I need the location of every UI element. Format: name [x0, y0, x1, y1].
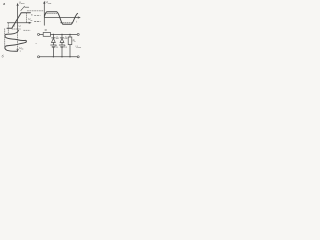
- wire arrowhead of vin axis: [29, 22, 31, 23]
- wire dashed lower level line: [12, 28, 21, 30]
- wire dashed projection of negative peak: [4, 29, 6, 48]
- wire dashed projection above flat bottom: [7, 23, 9, 33]
- wire arrowhead of v axis: [17, 4, 18, 6]
- wire tick left of output axis upper: [34, 15, 40, 17]
- wire bottom rail: [40, 56, 78, 58]
- wire dashed time axis of input wave: [17, 30, 19, 50]
- wire RL top stub: [69, 34, 71, 37]
- wire top rail: [51, 33, 78, 35]
- wire dashed clip level to output plot: [27, 10, 44, 12]
- wire D1 to battery E1: [52, 43, 54, 46]
- node junction dot D1: [53, 34, 54, 35]
- wire dashed projection of positive peak: [25, 13, 27, 22]
- node junction dot bottom RL: [69, 56, 70, 57]
- svg-text:U: U: [19, 24, 21, 28]
- transfer characteristic curve (limiter): [7, 13, 30, 28]
- wire dashed clip level above flat bottom: [60, 22, 72, 24]
- svg-text:~: ~: [35, 42, 37, 46]
- battery E2: [59, 44, 65, 46]
- wire E2 to bottom rail: [61, 47, 63, 57]
- node junction dot bottom D1: [53, 56, 54, 57]
- input terminal bottom circle: [38, 56, 40, 58]
- svg-text:-U: -U: [12, 24, 15, 28]
- wire dashed clip level under flat top: [45, 12, 57, 14]
- wire vertical axis v_out of transfer plot: [17, 4, 19, 29]
- output clipped waveform: [44, 12, 77, 24]
- input terminal top circle: [38, 33, 40, 35]
- wire horizontal axis v_in of transfer plot: [7, 22, 30, 24]
- input sine wave rotated, time downward: [5, 30, 27, 51]
- output terminal top circle: [77, 33, 79, 35]
- node junction dot bottom D2: [61, 56, 62, 57]
- diode D1 (vertical, cathode bar top): [52, 34, 54, 38]
- wire arrowhead time axis down: [17, 49, 18, 51]
- wire vertical axis of output plot: [43, 2, 45, 25]
- resistor RL (load, box style vertical): [68, 37, 72, 45]
- node label annotation near leader: [25, 6, 29, 8]
- wire input to resistor: [40, 33, 44, 35]
- wire arrowhead output v axis: [44, 2, 45, 4]
- wire time axis of output plot: [44, 17, 79, 19]
- wire D2 to battery E2: [61, 43, 63, 46]
- node junction dot RL: [69, 34, 70, 35]
- wire dashed segment right of lower level: [24, 29, 30, 31]
- diode D2 (vertical, cathode bar top): [61, 34, 63, 38]
- resistor R (series, box style): [43, 33, 50, 37]
- wire RL to bottom rail: [69, 45, 71, 57]
- battery E1: [51, 44, 57, 46]
- wire arrowhead output t axis: [78, 17, 80, 18]
- wire tick left of output axis lower: [34, 21, 40, 23]
- wire leader line to flat top: [21, 6, 25, 10]
- svg-text:б: б: [2, 55, 4, 59]
- wire E1 to bottom rail: [52, 47, 54, 57]
- node junction dot D2: [61, 34, 62, 35]
- output terminal bottom circle: [77, 56, 79, 58]
